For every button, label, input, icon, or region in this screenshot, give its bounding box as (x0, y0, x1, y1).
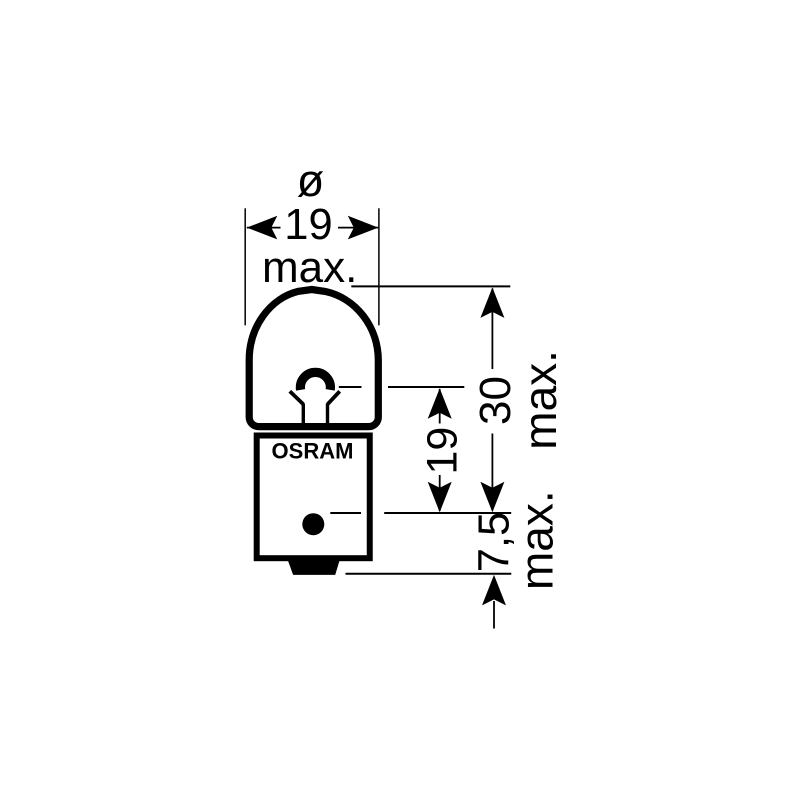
svg-text:19: 19 (419, 427, 467, 475)
dim line 19 right (439, 389, 441, 424)
svg-text:max.: max. (262, 243, 357, 292)
stub line 7.5 (493, 601, 495, 629)
arrow left (247, 216, 277, 240)
dim line right segment (338, 227, 378, 229)
svg-text:19: 19 (284, 201, 332, 249)
svg-text:max.: max. (510, 490, 562, 590)
bottom reference line (346, 573, 512, 575)
rotated text 7.5 (471, 512, 519, 572)
extension line left (244, 208, 246, 325)
rotated text 30 (471, 376, 520, 425)
arrow 19 down (428, 482, 452, 513)
lead wire left (302, 404, 305, 427)
filament leader line (339, 386, 362, 388)
arrow 30 up (480, 287, 504, 318)
rotated text 19 (419, 427, 467, 475)
filament arch (300, 372, 330, 389)
arrow 7.5 up (482, 575, 506, 606)
base cap rectangle (257, 436, 370, 559)
arrow right (348, 216, 379, 240)
top right reference line (351, 285, 510, 287)
dim line left segment (247, 227, 281, 229)
rotated text max 30 (514, 350, 566, 450)
dim line 30 (491, 289, 493, 370)
bulb glass outline (249, 290, 378, 427)
rotated text max 7.5 (510, 490, 562, 590)
arrow 19 up (428, 388, 452, 419)
pin leader line (330, 512, 361, 514)
arrow 30 down (480, 482, 504, 513)
svg-text:OSRAM: OSRAM (272, 439, 354, 464)
filament support left (290, 391, 304, 404)
svg-text:30: 30 (471, 376, 520, 425)
svg-text:ø: ø (297, 155, 325, 206)
bottom contact (286, 556, 341, 575)
filament support right (328, 391, 340, 404)
base pin (302, 513, 324, 535)
svg-text:max.: max. (514, 350, 566, 450)
extension line right (378, 208, 380, 325)
lead wire right (326, 404, 329, 427)
